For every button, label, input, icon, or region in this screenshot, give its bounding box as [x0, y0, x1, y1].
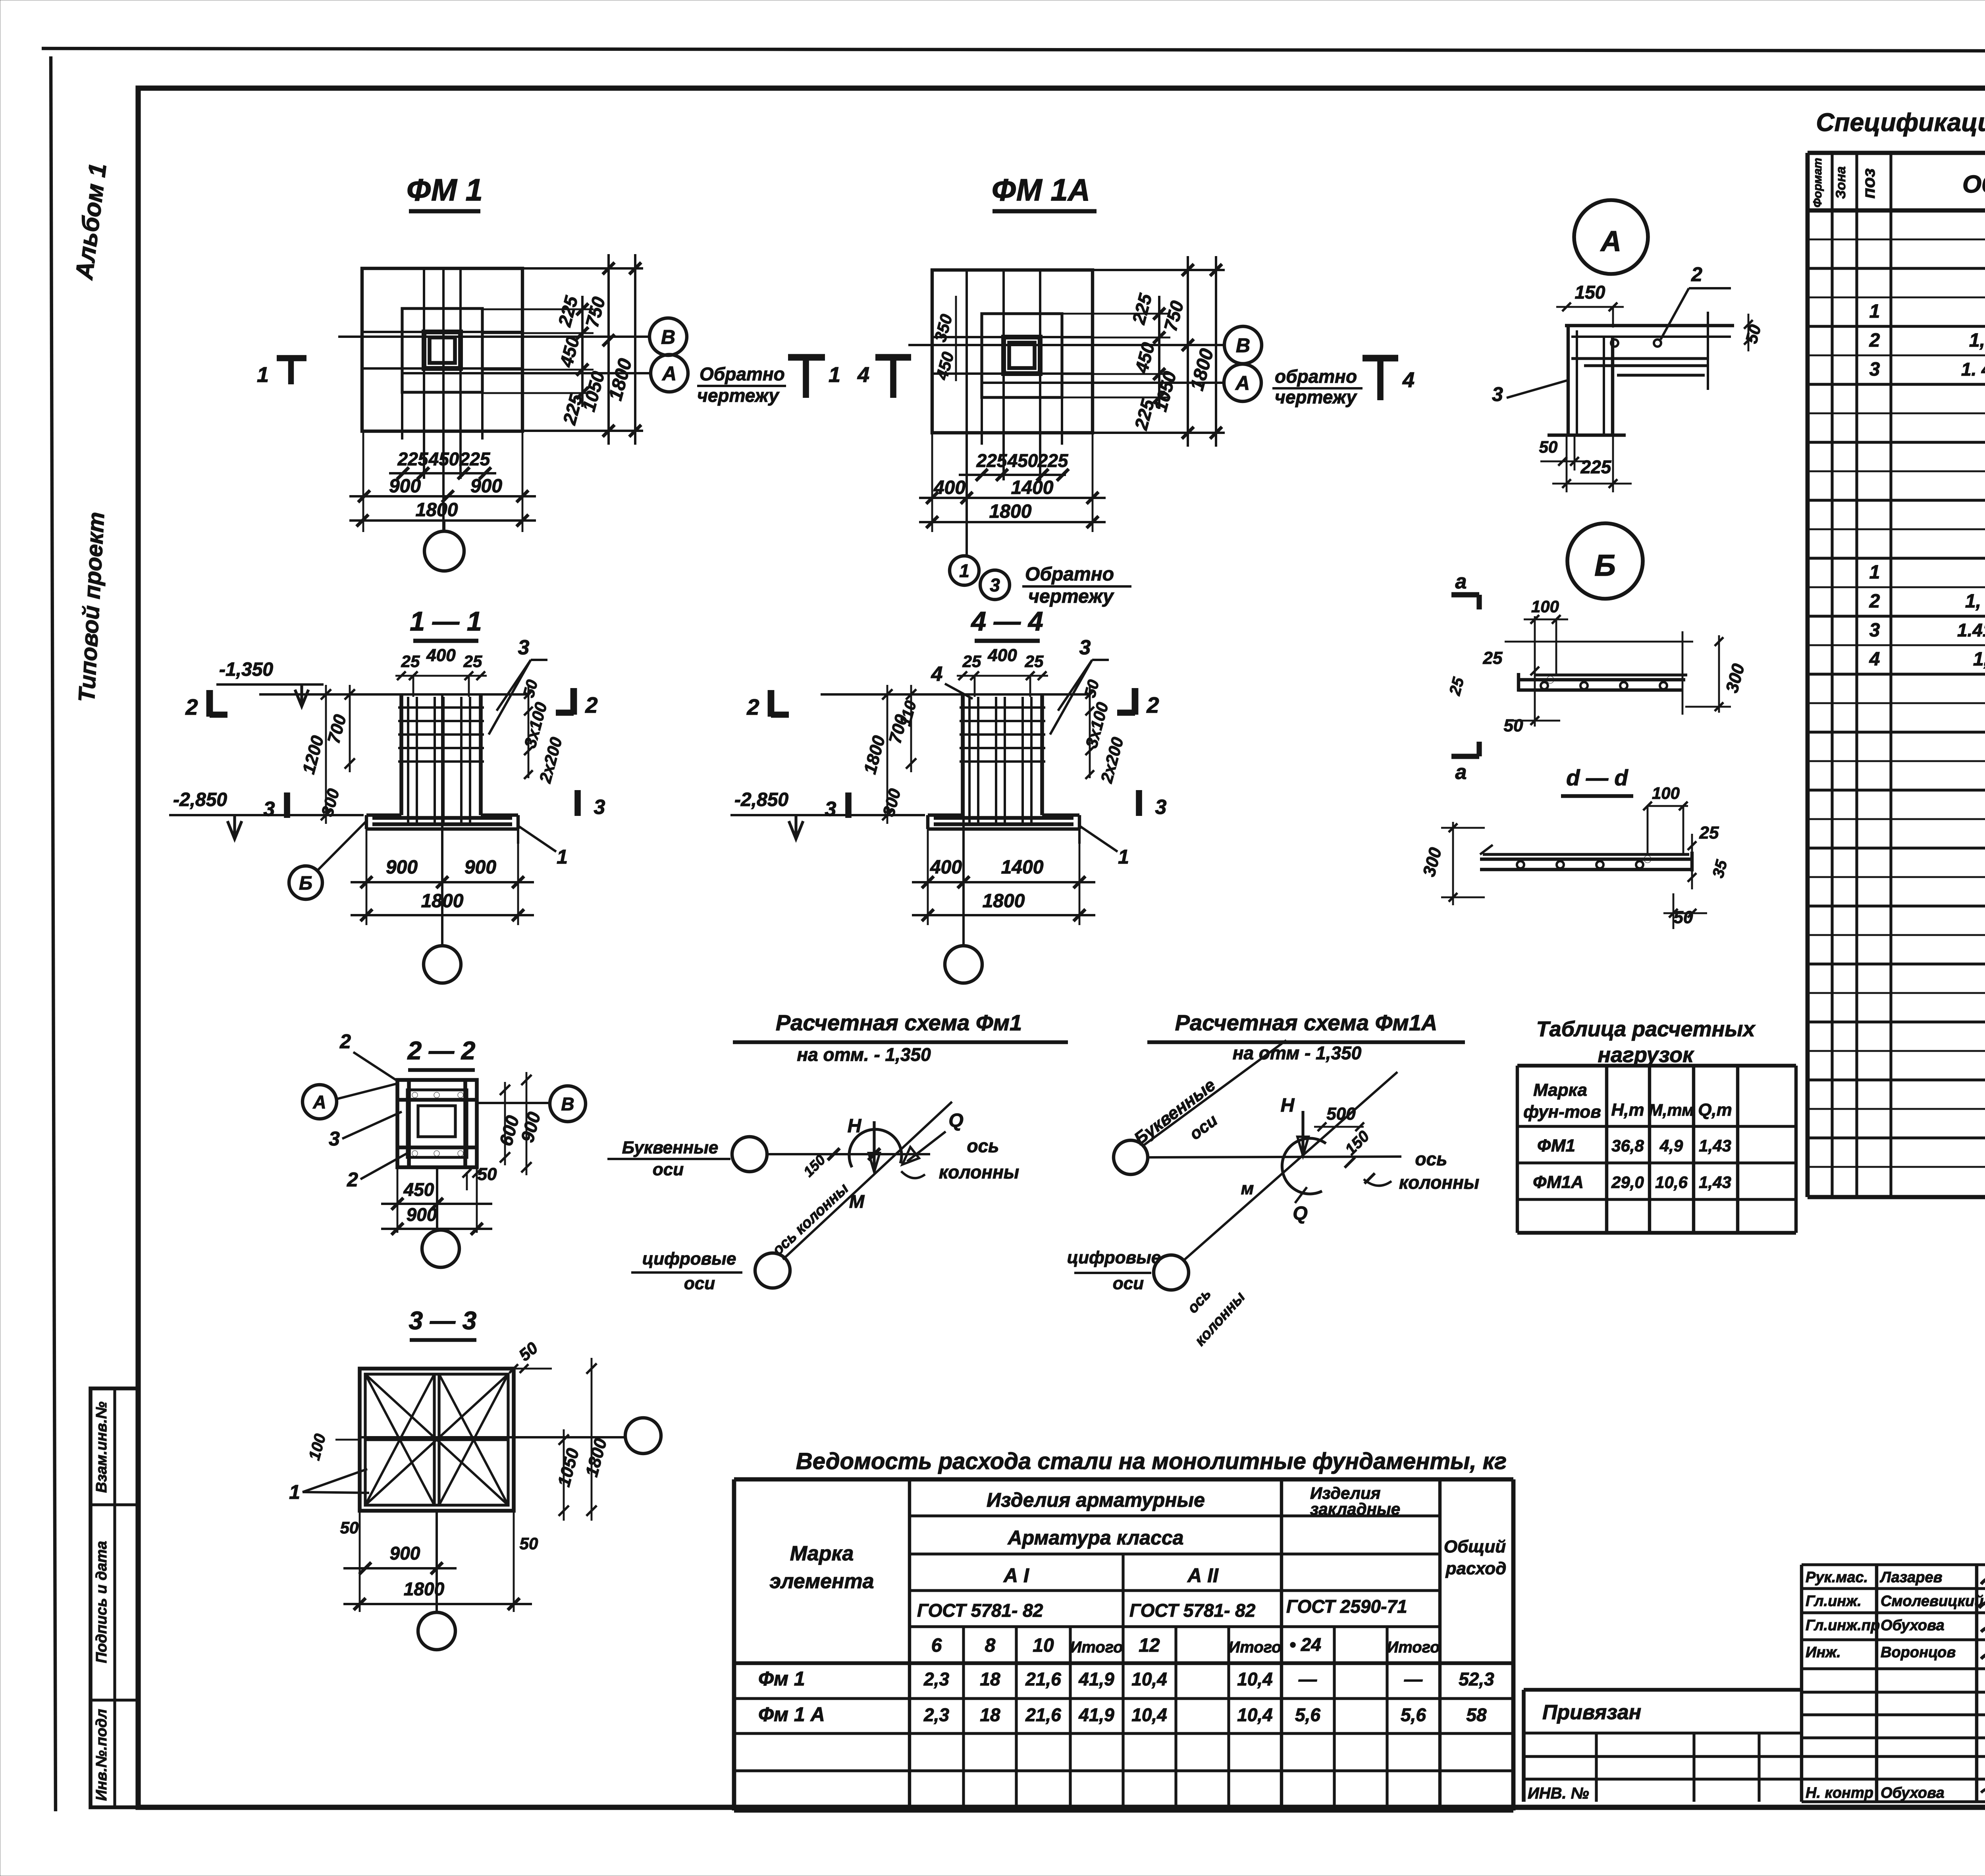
- svg-text:300: 300: [318, 787, 343, 818]
- svg-text:ФМ1А: ФМ1А: [1533, 1172, 1584, 1192]
- svg-text:Фм 1 А: Фм 1 А: [758, 1703, 825, 1726]
- svg-text:Альбом 1: Альбом 1: [70, 162, 112, 281]
- section 4 — 4 axis line + circle: [962, 694, 965, 946]
- svg-text:Типовой проект: Типовой проект: [74, 511, 110, 703]
- svg-text:2: 2: [1146, 692, 1159, 717]
- section 2-2 right dims 600-900: [504, 1082, 506, 1165]
- svg-text:700: 700: [324, 712, 350, 746]
- svg-text:50: 50: [1081, 678, 1102, 699]
- svg-text:58: 58: [1466, 1704, 1487, 1725]
- section 4 — 4 bottom dims: [927, 829, 929, 925]
- svg-text:ГОСТ 5781- 82: ГОСТ 5781- 82: [917, 1600, 1043, 1621]
- svg-text:1, 412 - 1/77 В.3 л.19: 1, 412 - 1/77 В.3 л.19: [1965, 591, 1985, 612]
- svg-text:900: 900: [470, 476, 502, 497]
- svg-text:колонны: колонны: [1399, 1172, 1479, 1193]
- svg-text:закладные: закладные: [1310, 1500, 1400, 1518]
- svg-text:цифровые: цифровые: [1067, 1248, 1161, 1267]
- svg-text:1: 1: [289, 1481, 300, 1503]
- svg-text:d — d: d — d: [1566, 765, 1628, 790]
- svg-text:2: 2: [339, 1030, 351, 1053]
- section 1 — 1 rebar verticals: [407, 697, 409, 824]
- svg-text:-2,850: -2,850: [173, 789, 227, 810]
- plan FM1 bottom grid circle: [443, 521, 445, 531]
- svg-text:Обозначение: Обозначение: [1962, 171, 1985, 198]
- section 2-2 rebar dots: [412, 1092, 418, 1098]
- grid circle В FM1A: [1224, 326, 1262, 364]
- svg-text:ФМ 1: ФМ 1: [407, 172, 483, 207]
- svg-text:1,43: 1,43: [1699, 1173, 1731, 1192]
- svg-text:12: 12: [1139, 1635, 1160, 1656]
- load table grid: [1516, 1066, 1519, 1233]
- svg-text:Изделия арматурные: Изделия арматурные: [987, 1489, 1205, 1511]
- svg-text:50: 50: [520, 678, 541, 699]
- svg-text:ГОСТ 2590-71: ГОСТ 2590-71: [1286, 1596, 1407, 1617]
- svg-text:3: 3: [594, 796, 605, 819]
- svg-text:В: В: [1236, 334, 1250, 357]
- detail A slab lines: [1565, 324, 1734, 327]
- svg-text:1400: 1400: [1011, 477, 1054, 498]
- svg-text:на отм - 1,350: на отм - 1,350: [1233, 1043, 1362, 1063]
- svg-text:ФМ1: ФМ1: [1537, 1136, 1575, 1155]
- svg-text:оси: оси: [1113, 1274, 1144, 1293]
- svg-text:225: 225: [554, 293, 582, 329]
- svg-text:чертежу: чертежу: [1275, 387, 1357, 407]
- svg-text:3: 3: [329, 1128, 340, 1150]
- staff signatures: [1981, 1566, 1985, 1584]
- svg-text:450: 450: [1007, 450, 1038, 471]
- plan column formwork: [424, 332, 461, 368]
- svg-text:50: 50: [520, 1534, 538, 1553]
- svg-text:100: 100: [1652, 784, 1680, 802]
- svg-text:21,6: 21,6: [1025, 1704, 1061, 1725]
- svg-text:Таблица расчетных: Таблица расчетных: [1536, 1017, 1756, 1041]
- svg-text:25: 25: [1446, 675, 1467, 698]
- section 3-3 bracing diagonals: [365, 1374, 508, 1505]
- svg-text:2 — 2: 2 — 2: [407, 1036, 476, 1065]
- svg-text:А II: А II: [1187, 1564, 1219, 1587]
- svg-text:41,9: 41,9: [1078, 1669, 1114, 1689]
- svg-text:1: 1: [1869, 301, 1880, 322]
- svg-text:21,6: 21,6: [1025, 1669, 1061, 1689]
- svg-text:2,3: 2,3: [923, 1669, 949, 1689]
- plan FM1A right dim 750-1050: [1187, 256, 1189, 447]
- formwork mark Т4: [1363, 355, 1398, 362]
- svg-text:3: 3: [1155, 796, 1167, 819]
- scheme FM1 moment arc: [849, 1129, 902, 1167]
- detail d-d dim 300: [1452, 822, 1454, 905]
- svg-text:350: 350: [931, 312, 956, 344]
- svg-text:900: 900: [389, 476, 421, 497]
- svg-text:25: 25: [1699, 823, 1719, 843]
- detail A dim 50 right: [1748, 314, 1750, 351]
- svg-text:Б: Б: [299, 873, 312, 894]
- plan FM1A axis lines: [908, 344, 1224, 346]
- svg-text:—: —: [1404, 1669, 1423, 1689]
- svg-text:1: 1: [557, 846, 568, 868]
- plan middle step: [402, 308, 482, 392]
- svg-text:400: 400: [987, 646, 1017, 665]
- scheme FM1A N arrow: [1301, 1111, 1304, 1153]
- svg-text:ось колонны: ось колонны: [769, 1180, 852, 1259]
- svg-text:18: 18: [980, 1704, 1000, 1725]
- svg-text:1: 1: [959, 561, 969, 581]
- svg-text:900: 900: [464, 857, 496, 878]
- svg-text:• 24: • 24: [1289, 1634, 1321, 1655]
- svg-text:1 — 1: 1 — 1: [410, 606, 482, 636]
- svg-text:3 — 3: 3 — 3: [409, 1306, 477, 1335]
- svg-text:225: 225: [459, 449, 491, 469]
- svg-text:3: 3: [1869, 359, 1880, 380]
- scheme FM1 column axis diagonal: [783, 1102, 952, 1259]
- svg-text:50: 50: [515, 1338, 542, 1365]
- section 1 — 1 slab: [366, 814, 401, 817]
- section 4 — 4 right rotated dims: [1089, 685, 1091, 778]
- svg-text:3: 3: [990, 575, 1000, 596]
- section 4 — 4 rebar verticals: [968, 697, 971, 824]
- svg-text:5,6: 5,6: [1401, 1704, 1426, 1725]
- svg-text:500: 500: [1326, 1104, 1356, 1124]
- svg-text:900: 900: [516, 1110, 544, 1145]
- axis circle 3: [980, 570, 1010, 600]
- svg-text:225: 225: [1580, 457, 1612, 477]
- section 1 — 1 ground line: [259, 693, 528, 696]
- section 1 — 1 left dim total: [325, 685, 327, 824]
- svg-text:1050: 1050: [1150, 369, 1180, 414]
- svg-text:Формат: Формат: [1811, 158, 1824, 207]
- svg-text:100: 100: [1531, 597, 1559, 616]
- svg-text:50: 50: [340, 1518, 359, 1537]
- svg-text:10,4: 10,4: [1237, 1669, 1273, 1689]
- section 1 — 1 stirrups: [398, 706, 484, 709]
- section 4 — 4 bottom mesh: [934, 816, 1073, 820]
- svg-text:Лазарев: Лазарев: [1879, 1569, 1943, 1586]
- section 1 — 1 axis line + circle: [441, 694, 443, 946]
- svg-text:8: 8: [985, 1635, 996, 1656]
- svg-text:поз: поз: [1859, 168, 1879, 199]
- svg-text:1800: 1800: [404, 1579, 445, 1599]
- svg-text:цифровые: цифровые: [642, 1249, 736, 1269]
- svg-text:400: 400: [426, 646, 456, 665]
- svg-text:2,3: 2,3: [923, 1704, 949, 1725]
- svg-text:чертежу: чертежу: [697, 385, 780, 406]
- svg-text:оси: оси: [684, 1274, 715, 1293]
- svg-text:5,6: 5,6: [1295, 1704, 1320, 1725]
- svg-text:А: А: [661, 362, 676, 385]
- sheet top rule: [42, 48, 1985, 52]
- svg-text:М: М: [849, 1191, 865, 1212]
- svg-text:м: м: [1241, 1179, 1254, 1198]
- svg-text:Инв.№.подл: Инв.№.подл: [93, 1709, 110, 1801]
- title block: left part: [1524, 1688, 1802, 1692]
- svg-text:Зона: Зона: [1833, 166, 1848, 199]
- svg-text:225: 225: [397, 449, 429, 469]
- svg-text:750: 750: [581, 295, 609, 330]
- detail A rebar dots: [1611, 339, 1618, 347]
- svg-text:300: 300: [1419, 845, 1445, 879]
- svg-text:4: 4: [1402, 368, 1415, 392]
- section 1 — 1 bottom mesh: [372, 816, 512, 820]
- svg-text:25: 25: [1025, 652, 1044, 671]
- section 3-3 panel: [360, 1369, 514, 1511]
- axis circle 1: [950, 556, 979, 585]
- grid circle В: [649, 318, 687, 355]
- svg-text:Н: Н: [1281, 1095, 1295, 1116]
- section 1 — 1 bottom dims: [366, 829, 368, 925]
- section 1 — 1 right rotated dims: [528, 685, 530, 778]
- svg-text:4,9: 4,9: [1659, 1136, 1683, 1155]
- svg-text:300: 300: [1722, 661, 1748, 695]
- svg-text:50: 50: [478, 1165, 497, 1184]
- svg-text:Итого: Итого: [1387, 1639, 1440, 1656]
- svg-text:Н,т: Н,т: [1611, 1100, 1644, 1120]
- svg-text:колонны: колонны: [939, 1162, 1019, 1182]
- svg-text:41,9: 41,9: [1078, 1704, 1114, 1725]
- svg-text:3: 3: [825, 798, 836, 821]
- svg-text:50: 50: [1539, 438, 1558, 456]
- svg-text:2: 2: [585, 692, 597, 717]
- svg-text:Итого: Итого: [1228, 1639, 1281, 1656]
- svg-text:1.412- 1/77, вып. 3, л. 5: 1.412- 1/77, вып. 3, л. 5: [1957, 620, 1985, 640]
- svg-text:1: 1: [1869, 562, 1880, 583]
- svg-text:2: 2: [1691, 263, 1702, 285]
- svg-text:1800: 1800: [1187, 346, 1218, 393]
- svg-text:расход: расход: [1445, 1559, 1507, 1578]
- section 1-1 circle Б leader: [289, 866, 322, 899]
- svg-text:1800: 1800: [582, 1436, 611, 1479]
- svg-text:оси: оси: [1186, 1111, 1221, 1143]
- svg-text:3: 3: [264, 798, 275, 821]
- svg-text:1400: 1400: [1001, 857, 1044, 878]
- grid circle А 2-2: [303, 1085, 337, 1119]
- plan FM1 axis lines: [338, 335, 650, 338]
- svg-text:-1,350: -1,350: [219, 659, 273, 680]
- svg-text:а: а: [1455, 570, 1467, 593]
- grid circle А FM1A: [1224, 364, 1261, 401]
- svg-text:Обухова: Обухова: [1881, 1617, 1945, 1634]
- detail Б section mark a bottom: [1451, 754, 1479, 759]
- svg-text:3: 3: [518, 636, 530, 659]
- section 1 — 1 pedestal: [399, 694, 403, 815]
- svg-text:ось: ось: [1184, 1286, 1214, 1317]
- svg-text:элемента: элемента: [769, 1570, 874, 1593]
- section 3-3 axis line: [360, 1436, 625, 1438]
- svg-text:10,4: 10,4: [1237, 1704, 1273, 1725]
- svg-text:450: 450: [555, 334, 583, 370]
- section 1 — 1 left dim 700: [349, 685, 351, 772]
- svg-text:400: 400: [933, 477, 966, 498]
- svg-text:150: 150: [800, 1151, 828, 1180]
- svg-text:Обратно: Обратно: [700, 364, 785, 384]
- svg-text:Q: Q: [948, 1110, 963, 1131]
- svg-text:ось: ось: [967, 1136, 999, 1156]
- plan FM1 right dim 1800: [634, 254, 636, 445]
- section 3-3 bottom circle: [418, 1612, 455, 1650]
- scheme FM1A dim 500: [1314, 1126, 1364, 1128]
- svg-text:ФМ 1А: ФМ 1А: [992, 172, 1090, 207]
- scheme FM1A horizontal line: [1148, 1157, 1401, 1157]
- svg-text:Итого: Итого: [1070, 1639, 1123, 1656]
- svg-text:Марка: Марка: [1533, 1080, 1587, 1100]
- svg-text:Марка: Марка: [790, 1542, 854, 1565]
- svg-text:Расчетная схема Фм1: Расчетная схема Фм1: [776, 1010, 1022, 1035]
- svg-text:25: 25: [962, 652, 981, 671]
- svg-text:Арматура класса: Арматура класса: [1007, 1527, 1184, 1549]
- svg-text:900: 900: [407, 1204, 437, 1225]
- svg-text:чертежу: чертежу: [1028, 586, 1114, 607]
- detail d-d slab: [1483, 853, 1689, 856]
- plan FM1 bottom dims: [362, 431, 364, 532]
- detail A dim 150: [1556, 306, 1624, 308]
- svg-text:А: А: [1235, 372, 1250, 394]
- svg-text:25: 25: [401, 652, 420, 671]
- svg-text:900: 900: [390, 1543, 420, 1564]
- svg-text:3: 3: [1492, 383, 1503, 405]
- svg-text:2: 2: [185, 694, 198, 719]
- plan column formwork: [1004, 337, 1040, 374]
- svg-text:1800: 1800: [860, 733, 889, 776]
- plan FM1A right dim chain 225-450-225: [1158, 296, 1160, 409]
- title block: staff table: [1800, 1565, 1803, 1802]
- scheme FM1A letters diagonal: [1142, 1040, 1286, 1147]
- plan FM1 right dim 750-1050: [607, 254, 610, 445]
- svg-text:Инж.: Инж.: [1806, 1644, 1841, 1661]
- svg-text:1: 1: [829, 363, 840, 387]
- svg-text:18: 18: [980, 1669, 1000, 1689]
- svg-text:225: 225: [1128, 291, 1156, 327]
- section 4 — 4 pedestal: [961, 694, 965, 815]
- svg-text:Взам.инв.№: Взам.инв.№: [93, 1402, 110, 1493]
- detail A right end: [1707, 312, 1709, 390]
- scheme FM1 horizontal axis: [767, 1153, 930, 1155]
- scheme FM1A letters axis circle: [1114, 1140, 1148, 1174]
- svg-text:2: 2: [746, 694, 759, 719]
- svg-text:1. 412- 1/77, вып. 3 л.5: 1. 412- 1/77, вып. 3 л.5: [1961, 359, 1985, 380]
- svg-text:3: 3: [1869, 620, 1880, 641]
- scheme FM1A main diagonal: [1184, 1072, 1397, 1260]
- svg-text:4: 4: [857, 363, 869, 387]
- svg-text:Q: Q: [1293, 1203, 1307, 1224]
- steel table grid: [734, 1477, 1513, 1482]
- section 3-3 bottom dims: [359, 1511, 361, 1612]
- svg-text:Гл.инж.пр: Гл.инж.пр: [1806, 1617, 1880, 1634]
- detail Б dim 300: [1718, 635, 1720, 713]
- svg-text:Обухова: Обухова: [1881, 1785, 1945, 1801]
- section 2-2 bottom circle: [422, 1230, 459, 1267]
- plan middle step: [982, 314, 1062, 397]
- section 4 — 4 top dims 25-400-25: [957, 675, 1048, 677]
- detail d-d rebar circles: [1517, 861, 1524, 868]
- svg-text:Q,т: Q,т: [1698, 1100, 1732, 1120]
- svg-text:ось: ось: [1415, 1149, 1447, 1169]
- svg-text:-2,850: -2,850: [734, 789, 788, 810]
- svg-text:900: 900: [386, 857, 418, 878]
- svg-text:оси: оси: [653, 1160, 684, 1179]
- svg-text:фун-тов: фун-тов: [1523, 1102, 1601, 1122]
- svg-text:Б: Б: [1594, 549, 1616, 582]
- svg-text:1,412, 1- 4 л. 29: 1,412, 1- 4 л. 29: [1973, 649, 1985, 670]
- svg-text:225: 225: [976, 450, 1008, 471]
- svg-text:4: 4: [931, 663, 943, 686]
- section 1 — 1 top dims 25-400-25: [395, 675, 487, 677]
- svg-text:на отм. - 1,350: на отм. - 1,350: [797, 1044, 931, 1065]
- svg-text:25: 25: [1483, 648, 1503, 668]
- svg-text:1800: 1800: [416, 499, 458, 521]
- svg-text:450: 450: [403, 1179, 434, 1200]
- scheme FM1 N arrow: [873, 1121, 875, 1170]
- svg-text:Смолевицкий: Смолевицкий: [1881, 1593, 1983, 1610]
- svg-text:Ведомость расхода стали на: Ведомость расхода стали на монолитные фу…: [796, 1448, 1507, 1474]
- svg-text:110: 110: [896, 699, 920, 728]
- detail A wall lines: [1567, 326, 1570, 434]
- svg-text:—: —: [1298, 1669, 1317, 1689]
- svg-text:750: 750: [1160, 299, 1187, 334]
- svg-text:1800: 1800: [983, 891, 1025, 912]
- svg-text:10,4: 10,4: [1131, 1704, 1167, 1725]
- svg-text:3: 3: [1079, 636, 1091, 659]
- svg-text:Подпись и дата: Подпись и дата: [93, 1541, 110, 1663]
- plan FM1A extension lines: [1093, 269, 1225, 271]
- scheme FM1 dim 150 ticks: [828, 1148, 840, 1160]
- svg-text:Н. контр: Н. контр: [1806, 1785, 1873, 1801]
- svg-text:4: 4: [1869, 649, 1880, 670]
- plan FM1A left dims 350-450: [955, 296, 957, 381]
- svg-text:300: 300: [879, 787, 904, 818]
- formwork mark Т1: [788, 354, 825, 361]
- plan FM1 extension lines: [522, 267, 643, 270]
- svg-text:Гл.инж.: Гл.инж.: [1806, 1593, 1862, 1610]
- svg-text:6: 6: [931, 1635, 942, 1656]
- svg-text:25: 25: [463, 652, 482, 671]
- svg-text:2: 2: [347, 1168, 358, 1191]
- grid circle А: [651, 355, 688, 392]
- plan joint lines: [423, 268, 425, 479]
- section 4 — 4 left dim 700: [910, 685, 912, 772]
- svg-text:35: 35: [1709, 858, 1731, 880]
- svg-text:1800: 1800: [989, 501, 1032, 522]
- svg-text:А: А: [1600, 226, 1621, 257]
- plan FM1A bottom dims: [931, 433, 933, 532]
- svg-text:2: 2: [1869, 591, 1880, 612]
- spec table grid: [1806, 153, 1810, 1197]
- svg-text:В: В: [661, 326, 675, 348]
- svg-text:1, 412 - 1 / 77 В 3 л.19: 1, 412 - 1 / 77 В 3 л.19: [1969, 330, 1985, 351]
- plan FM1 right dim chain 225-450-225: [576, 303, 588, 315]
- detail Б dims: [1524, 619, 1568, 621]
- svg-text:450: 450: [428, 449, 459, 469]
- svg-text:Обратно: Обратно: [1025, 564, 1114, 585]
- svg-text:Расчетная схема Фм1А: Расчетная схема Фм1А: [1175, 1010, 1438, 1035]
- svg-text:400: 400: [930, 857, 962, 878]
- svg-text:10,4: 10,4: [1131, 1669, 1167, 1689]
- svg-text:50: 50: [1504, 716, 1523, 735]
- scheme FM1 axis circle letters: [732, 1137, 767, 1172]
- svg-text:150: 150: [1342, 1128, 1373, 1159]
- svg-text:А I: А I: [1003, 1564, 1029, 1587]
- svg-text:10: 10: [1033, 1635, 1054, 1656]
- svg-text:1,43: 1,43: [1699, 1136, 1731, 1155]
- svg-text:ГОСТ 5781- 82: ГОСТ 5781- 82: [1129, 1600, 1256, 1621]
- svg-text:В: В: [561, 1094, 574, 1114]
- svg-text:10,6: 10,6: [1655, 1173, 1688, 1192]
- svg-text:Буквенные: Буквенные: [622, 1138, 719, 1157]
- svg-text:Общий: Общий: [1444, 1537, 1506, 1556]
- svg-text:29,0: 29,0: [1611, 1173, 1644, 1192]
- section 3-3 right circle: [625, 1418, 661, 1454]
- detail Б rebar circles: [1541, 682, 1548, 689]
- svg-text:1200: 1200: [299, 733, 328, 776]
- detail A circle: [1574, 200, 1648, 274]
- svg-text:150: 150: [1575, 282, 1605, 303]
